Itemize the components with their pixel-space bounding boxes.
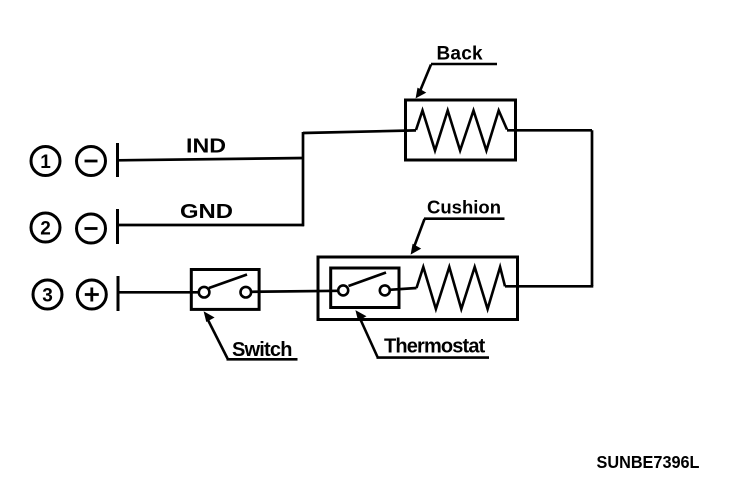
label Thermostat: [377, 335, 490, 357]
leader arrow to Switch: [204, 311, 228, 358]
svg-text:GND: GND: [180, 201, 233, 223]
thermostat box: [331, 268, 399, 308]
svg-text:Back: Back: [437, 43, 483, 64]
terminal polarity plus (pin 3): [77, 280, 106, 309]
switch blade: [209, 275, 247, 289]
wire cushion heater to right bus: [505, 285, 593, 288]
leader arrow to Cushion: [411, 219, 425, 255]
terminal polarity minus (pin 1): [77, 147, 106, 176]
wire thermostat to cushion resistor: [390, 288, 417, 290]
connector pin 3: [33, 280, 62, 309]
terminal tick pin 1: [116, 143, 119, 177]
heater element Back box: [406, 100, 516, 160]
svg-text:3: 3: [42, 286, 53, 307]
switch contact left: [199, 287, 210, 298]
svg-text:Cushion: Cushion: [427, 197, 501, 218]
wire pin 3 to switch: [118, 291, 200, 294]
resistor back heater zigzag: [416, 111, 507, 151]
wire junction vertical IND/GND: [302, 132, 305, 226]
terminal tick pin 2: [116, 209, 119, 244]
thermostat blade: [349, 273, 387, 287]
heater element Cushion box: [318, 257, 518, 320]
wire back heater to right bus: [507, 129, 592, 132]
leader arrow to Thermostat: [355, 310, 377, 357]
thermostat contact left: [338, 285, 348, 295]
svg-text:1: 1: [40, 152, 51, 173]
thermostat contact right: [380, 285, 390, 295]
connector pin 1: [31, 147, 60, 176]
wire GND: [118, 224, 305, 227]
svg-text:IND: IND: [186, 136, 226, 158]
svg-text:2: 2: [40, 219, 51, 240]
label Cushion: [424, 197, 505, 219]
terminal polarity minus (pin 2): [77, 214, 106, 243]
terminal tick pin 3: [117, 276, 120, 311]
switch SW box: [191, 270, 259, 310]
wire switch to thermostat: [251, 291, 339, 292]
label Back: [431, 43, 497, 64]
wire IND: [118, 158, 305, 160]
switch contact right: [241, 287, 252, 298]
svg-text:Thermostat: Thermostat: [384, 335, 486, 357]
svg-text:SUNBE7396L: SUNBE7396L: [597, 452, 700, 472]
svg-text:Switch: Switch: [232, 339, 292, 361]
connector pin 2: [31, 213, 60, 242]
leader arrow to Back: [416, 65, 431, 99]
resistor cushion heater zigzag: [417, 267, 506, 309]
wire right vertical bus: [591, 130, 594, 286]
label Switch: [227, 339, 298, 361]
wire junction to back heater: [303, 130, 416, 133]
